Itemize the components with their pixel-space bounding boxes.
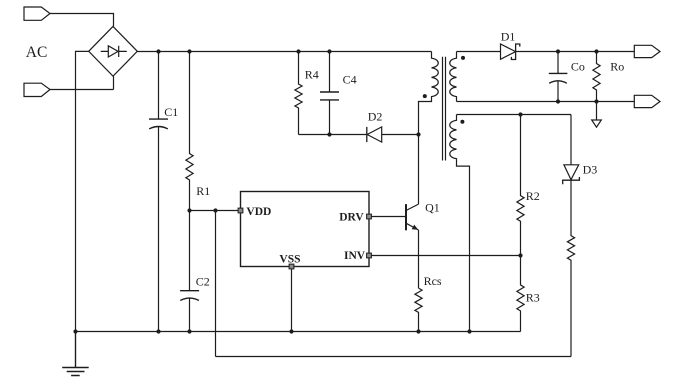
wire VSS to ground rail bbox=[291, 269, 293, 332]
svg-text:C1: C1 bbox=[164, 105, 178, 119]
wire J1 to bridge top bbox=[50, 14, 114, 27]
svg-text:D3: D3 bbox=[583, 162, 598, 176]
wire INV sense line bbox=[371, 255, 520, 257]
wire Q1 emitter down bbox=[418, 230, 420, 288]
node C2-ground bbox=[187, 329, 191, 333]
wire secondary return rail bbox=[457, 101, 635, 103]
wire bridge left vertex to ground rail bbox=[76, 51, 89, 331]
capacitor C2 bbox=[180, 211, 199, 332]
node C1-ground bbox=[156, 329, 160, 333]
svg-text:R2: R2 bbox=[526, 189, 540, 203]
node bridge-ground bbox=[73, 329, 77, 333]
transformer auxiliary winding bbox=[450, 115, 470, 332]
svg-text:INV: INV bbox=[344, 250, 366, 262]
node rail-R1 bbox=[187, 49, 191, 53]
ground bbox=[62, 332, 88, 376]
wire DRV to base bbox=[371, 216, 406, 218]
node out--Ro bbox=[594, 99, 598, 103]
node Rcs-ground bbox=[416, 329, 420, 333]
node out--Co bbox=[556, 99, 560, 103]
resistor R3 bbox=[517, 256, 524, 332]
diode D2 bbox=[367, 127, 382, 142]
svg-text:D1: D1 bbox=[501, 29, 516, 43]
output ground bbox=[596, 102, 598, 121]
resistor R1 bbox=[186, 52, 193, 211]
capacitor C1 bbox=[149, 52, 168, 332]
node VDD-feedback bbox=[213, 208, 217, 212]
svg-text:Ro: Ro bbox=[610, 60, 624, 74]
wire feedback vertical bbox=[215, 211, 217, 357]
svg-text:R1: R1 bbox=[196, 184, 210, 198]
wire D3 branch top bbox=[570, 115, 572, 165]
svg-text:DRV: DRV bbox=[339, 212, 364, 224]
pin VDD bbox=[238, 208, 243, 213]
svg-text:AC: AC bbox=[26, 44, 48, 61]
pin DRV bbox=[367, 214, 372, 219]
svg-text:R4: R4 bbox=[305, 68, 319, 82]
svg-text:Co: Co bbox=[571, 60, 585, 74]
auxiliary phasing dot bbox=[460, 120, 464, 124]
node R2-R3-INV bbox=[518, 253, 522, 257]
connector J2 (AC input bottom) bbox=[24, 83, 50, 96]
svg-text:C4: C4 bbox=[343, 72, 357, 86]
node aux-R2 bbox=[518, 112, 522, 116]
svg-text:C2: C2 bbox=[196, 274, 210, 288]
connector J3 (output +) bbox=[634, 45, 660, 57]
bridge rectifier diamond bbox=[89, 26, 138, 76]
resistor Ro bbox=[593, 52, 600, 102]
wire main ground rail bbox=[76, 331, 521, 333]
svg-text:VDD: VDD bbox=[246, 206, 271, 218]
node out+-Ro bbox=[594, 49, 598, 53]
node rail-R4 bbox=[296, 49, 300, 53]
primary phasing dot bbox=[423, 94, 427, 98]
zener diode D3 bbox=[563, 165, 580, 184]
node R1-VDD bbox=[187, 208, 191, 212]
transformer core bbox=[443, 57, 446, 161]
transformer secondary winding bbox=[450, 52, 457, 102]
wire J2 to bridge bottom bbox=[50, 76, 114, 89]
svg-text:Q1: Q1 bbox=[425, 200, 440, 214]
node D2-collector bbox=[416, 132, 420, 136]
resistor Rcs bbox=[415, 288, 422, 331]
wire VDD feed bbox=[190, 210, 239, 212]
wire snubber bottom / D2 net bbox=[299, 134, 419, 136]
wire aux feed rail bbox=[457, 114, 572, 116]
wire main top rail bbox=[137, 51, 431, 53]
svg-text:R3: R3 bbox=[526, 291, 540, 305]
secondary phasing dot bbox=[461, 56, 465, 60]
svg-text:Rcs: Rcs bbox=[424, 274, 442, 288]
wire secondary to D1 bbox=[457, 51, 501, 53]
node VSS-ground bbox=[289, 329, 293, 333]
wire feedback bottom rail bbox=[216, 356, 572, 358]
pin VSS bbox=[289, 264, 294, 269]
connector J1 (AC input top) bbox=[24, 7, 50, 20]
resistor R2 bbox=[517, 115, 524, 256]
resistor R4 bbox=[295, 52, 302, 135]
node C4-D2 bbox=[327, 132, 331, 136]
capacitor Co bbox=[549, 52, 568, 102]
svg-text:VSS: VSS bbox=[279, 253, 300, 265]
node rail-C4 bbox=[327, 49, 331, 53]
pin INV bbox=[367, 253, 372, 258]
resistor (unlabeled, D3 series) bbox=[567, 180, 574, 356]
transformer T1 primary winding bbox=[419, 52, 439, 205]
node aux-ground bbox=[467, 329, 471, 333]
wire D1 to output bbox=[516, 51, 635, 53]
svg-text:D2: D2 bbox=[368, 109, 383, 123]
bridge inner diode bbox=[101, 46, 127, 57]
op-amp U1 (PWM controller IC box) bbox=[241, 192, 370, 267]
transistor Q1 bbox=[406, 204, 419, 230]
connector J4 (output -) bbox=[634, 95, 660, 107]
diode D1 (schottky) bbox=[501, 44, 520, 60]
node rail-C1 bbox=[156, 49, 160, 53]
capacitor C4 bbox=[320, 52, 339, 135]
node out+-Co bbox=[556, 49, 560, 53]
